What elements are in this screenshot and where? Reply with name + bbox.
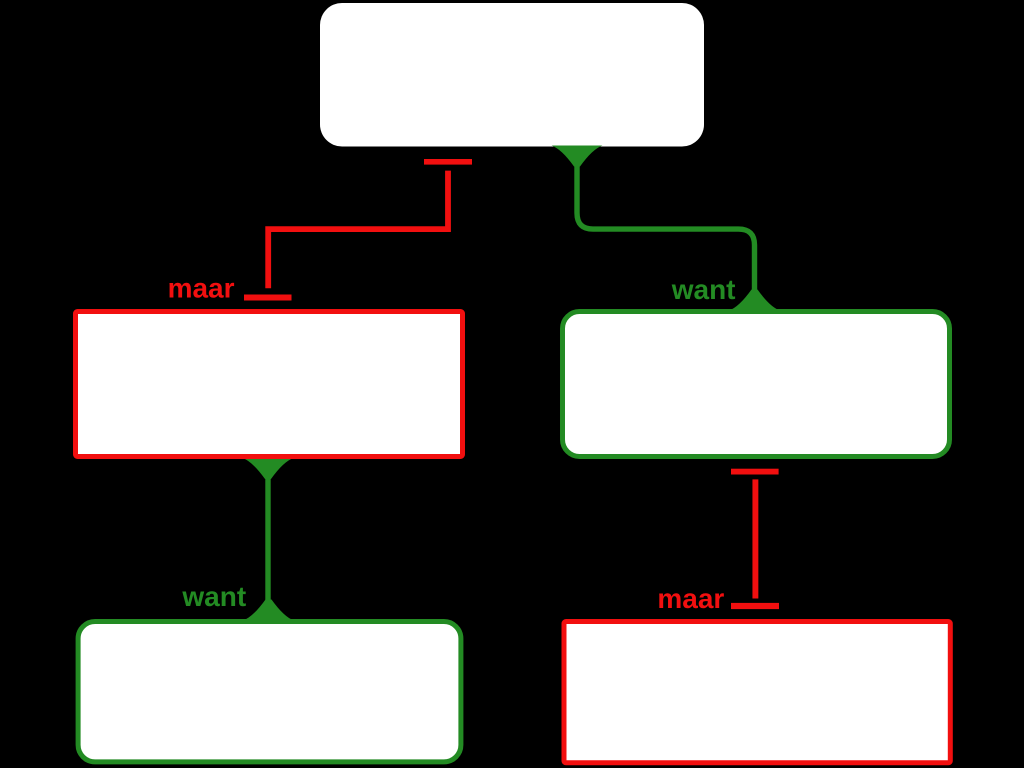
svg-text:maar: maar [168,273,235,304]
svg-text:want: want [181,581,246,612]
svg-text:want: want [671,274,736,305]
svg-text:maar: maar [657,583,724,614]
